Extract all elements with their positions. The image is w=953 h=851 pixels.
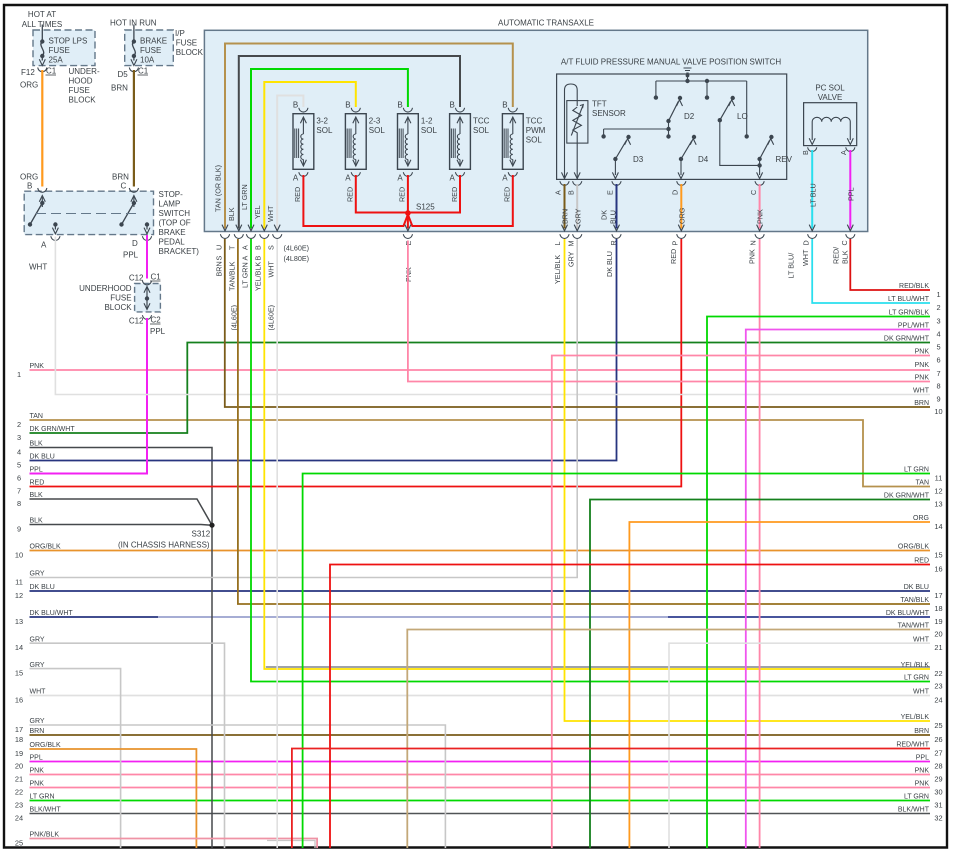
svg-text:LT GRN/BLK: LT GRN/BLK (889, 310, 930, 317)
svg-text:D4: D4 (698, 155, 709, 164)
wire RED row16 (330, 565, 930, 849)
wire RED/WHT row27 (292, 749, 930, 849)
svg-text:5: 5 (936, 343, 940, 352)
wire BLK row22 stripe (266, 666, 930, 668)
wire DK BLU/WHT row13-19 light segment (158, 616, 668, 618)
svg-text:17: 17 (934, 591, 942, 600)
svg-text:PEDAL: PEDAL (159, 238, 186, 247)
svg-text:BLOCK: BLOCK (69, 96, 97, 105)
svg-text:SOL: SOL (473, 126, 490, 135)
svg-text:RED: RED (914, 558, 929, 565)
svg-text:S312: S312 (192, 530, 211, 539)
svg-text:21: 21 (15, 775, 23, 784)
svg-text:28: 28 (934, 762, 942, 771)
svg-text:D: D (802, 240, 811, 245)
automatic transaxle box (204, 30, 867, 231)
ground symbol (684, 68, 692, 73)
svg-text:PNK: PNK (915, 375, 930, 382)
svg-text:YEL: YEL (253, 205, 262, 219)
wire DK BLU switch E (616, 184, 618, 229)
svg-text:BRAKE: BRAKE (140, 37, 167, 46)
svg-text:LO: LO (737, 112, 748, 121)
svg-text:N: N (749, 240, 758, 245)
svg-text:M: M (567, 241, 576, 247)
svg-text:C12: C12 (129, 274, 144, 283)
svg-text:SENSOR: SENSOR (592, 109, 626, 118)
wire PNK row22-30 (30, 787, 931, 789)
wire WHT feed 3-2 (277, 96, 303, 229)
svg-text:14: 14 (15, 643, 23, 652)
wire BLK row4 S312 trunk (30, 448, 213, 849)
svg-text:PPL/WHT: PPL/WHT (898, 323, 930, 330)
svg-text:WHT: WHT (801, 249, 810, 266)
solenoid 2-3 SOL (345, 114, 366, 170)
svg-text:LT GRN: LT GRN (904, 794, 929, 801)
svg-text:D5: D5 (118, 70, 129, 79)
svg-text:LT BLU/: LT BLU/ (787, 253, 796, 279)
svg-text:PPL: PPL (916, 755, 929, 762)
svg-text:BRN: BRN (215, 261, 224, 276)
svg-text:ORG: ORG (20, 81, 38, 90)
svg-text:FUSE: FUSE (69, 86, 90, 95)
svg-text:STOP LPS: STOP LPS (49, 37, 88, 46)
wire RED 2-3 sol A (356, 175, 408, 213)
svg-text:BRN: BRN (914, 400, 929, 407)
svg-text:(4L80E): (4L80E) (284, 254, 310, 263)
solenoid 1-2 SOL (398, 114, 419, 170)
svg-text:6: 6 (17, 474, 21, 483)
svg-text:PNK: PNK (30, 768, 45, 775)
svg-text:TAN (OR BLK): TAN (OR BLK) (214, 165, 223, 212)
svg-text:TAN/BLK: TAN/BLK (228, 261, 237, 291)
svg-text:LT BLU: LT BLU (809, 183, 818, 207)
svg-text:10A: 10A (140, 56, 155, 65)
svg-text:18: 18 (934, 604, 942, 613)
switch D2 (666, 119, 670, 123)
svg-text:RED/BLK: RED/BLK (899, 283, 929, 290)
wire WHT row16-24 (30, 695, 931, 697)
svg-text:BLK: BLK (227, 207, 236, 221)
svg-text:30: 30 (934, 788, 942, 797)
svg-text:1: 1 (17, 370, 21, 379)
svg-text:C1: C1 (151, 273, 162, 282)
svg-text:ORG/BLK: ORG/BLK (30, 544, 61, 551)
wire LT GRN pin A/A row23 (251, 239, 930, 682)
wire PNK pin N (759, 239, 761, 848)
svg-text:A: A (397, 174, 403, 183)
svg-text:SWITCH: SWITCH (159, 209, 191, 218)
svg-text:PNK: PNK (30, 781, 45, 788)
svg-text:YEL/BLK: YEL/BLK (901, 714, 930, 721)
wire LT GRN row11 (303, 474, 930, 849)
svg-text:TCC: TCC (526, 117, 543, 126)
svg-text:D: D (132, 239, 138, 248)
svg-text:7: 7 (936, 369, 940, 378)
svg-text:I/P: I/P (175, 29, 185, 38)
svg-text:GRY: GRY (567, 251, 576, 267)
svg-text:RED: RED (669, 249, 678, 264)
switch bus (656, 80, 747, 82)
svg-text:14: 14 (934, 522, 942, 531)
stop-lamp switch pole C (133, 197, 135, 207)
svg-text:A: A (502, 174, 508, 183)
svg-text:12: 12 (15, 591, 23, 600)
svg-text:TAN: TAN (916, 480, 929, 487)
wire YEL/BLK pin B/B row22 (264, 239, 930, 669)
svg-text:F12: F12 (21, 68, 35, 77)
wire PNK row6 (552, 356, 930, 849)
switch D4 (679, 157, 683, 161)
svg-text:3-2: 3-2 (316, 117, 328, 126)
switch D3 (613, 157, 617, 161)
wire RED TCC PWM sol A (408, 175, 513, 226)
svg-text:BLOCK: BLOCK (104, 303, 132, 312)
wire PPL/WHT row4 (746, 330, 930, 849)
A/T fluid pressure manual valve position switch box (557, 74, 787, 179)
wire PNK row21-29 (30, 774, 931, 776)
svg-text:PPL: PPL (30, 467, 43, 474)
wire GRY row25 stripe (267, 841, 315, 849)
wire WHT pin A row9 (55, 237, 930, 395)
wire BRN fuse feed (133, 70, 135, 187)
wire BLK row8 (30, 499, 213, 525)
wire GRY row17 (30, 725, 446, 848)
svg-text:B: B (502, 101, 507, 110)
svg-text:16: 16 (934, 565, 942, 574)
svg-text:BRN: BRN (914, 728, 929, 735)
svg-text:T: T (228, 245, 237, 250)
wire WHT row21 (669, 643, 930, 848)
svg-text:BRN: BRN (112, 173, 129, 182)
wire GRY row11 pin M (30, 239, 578, 578)
wire DK BLU row5 pin R (30, 239, 617, 461)
svg-text:4: 4 (936, 330, 940, 339)
svg-text:C2: C2 (151, 316, 162, 325)
wire PPL row20-28 (30, 761, 931, 763)
svg-text:15: 15 (934, 551, 942, 560)
svg-text:L: L (553, 242, 562, 246)
svg-text:PNK: PNK (30, 363, 45, 370)
svg-text:2-3: 2-3 (369, 117, 381, 126)
svg-text:BLOCK: BLOCK (176, 48, 204, 57)
svg-text:9: 9 (17, 525, 21, 534)
svg-text:4: 4 (17, 448, 21, 457)
wire DK BLU row12-17 (30, 590, 931, 592)
wire BLK row9 (30, 524, 213, 527)
svg-text:25: 25 (15, 839, 23, 848)
wire GRY switch B (576, 184, 578, 229)
svg-text:BRN: BRN (561, 209, 570, 224)
svg-text:C1: C1 (138, 67, 149, 76)
wire GRY row14 (30, 643, 225, 848)
svg-text:REV: REV (776, 155, 793, 164)
svg-text:RED: RED (346, 187, 355, 202)
wire TAN feed TCC PWM (225, 44, 513, 229)
svg-text:1-2: 1-2 (421, 117, 433, 126)
svg-text:8: 8 (936, 382, 940, 391)
wire BRN row18-26 (30, 734, 931, 736)
svg-text:WHT: WHT (30, 689, 47, 696)
svg-text:PWM: PWM (526, 126, 546, 135)
svg-text:25: 25 (934, 721, 942, 730)
wire BRN switch A (564, 184, 566, 229)
svg-text:D2: D2 (684, 112, 695, 121)
svg-text:A: A (293, 174, 299, 183)
svg-text:B: B (293, 101, 298, 110)
svg-text:PPL: PPL (30, 755, 43, 762)
svg-text:24: 24 (934, 696, 942, 705)
wire LT BLU pc sol B (811, 150, 813, 229)
svg-text:26: 26 (934, 735, 942, 744)
svg-text:B: B (254, 245, 263, 250)
svg-text:GRY: GRY (30, 718, 45, 725)
svg-text:WHT: WHT (266, 205, 275, 222)
svg-text:B: B (254, 256, 263, 261)
svg-text:24: 24 (15, 814, 23, 823)
svg-text:(4L60E): (4L60E) (284, 244, 310, 253)
wire ORG/BLK row10-15 (30, 550, 931, 552)
svg-text:(TOP OF: (TOP OF (159, 219, 191, 228)
svg-text:27: 27 (934, 749, 942, 758)
svg-text:PNK: PNK (915, 781, 930, 788)
svg-text:WHT: WHT (29, 263, 47, 272)
svg-text:DK BLU: DK BLU (904, 584, 929, 591)
svg-text:GRY: GRY (30, 636, 45, 643)
solenoid 3-2 SOL (293, 114, 314, 170)
svg-text:ORG/BLK: ORG/BLK (30, 742, 61, 749)
svg-text:22: 22 (15, 788, 23, 797)
svg-text:S: S (215, 256, 224, 261)
svg-text:32: 32 (934, 814, 942, 823)
wire BRN pin U/S row10 (225, 239, 930, 407)
stop-lamp switch dashed box (24, 191, 153, 234)
svg-text:B: B (397, 101, 402, 110)
svg-text:20: 20 (15, 762, 23, 771)
switch box pin arcs (560, 181, 569, 185)
svg-text:16: 16 (15, 696, 23, 705)
svg-text:PPL: PPL (847, 187, 856, 201)
svg-text:DK: DK (600, 210, 609, 220)
svg-text:SOL: SOL (421, 126, 438, 135)
svg-text:SOL: SOL (369, 126, 386, 135)
svg-text:D: D (671, 190, 680, 195)
svg-text:A: A (41, 241, 47, 250)
svg-text:S: S (267, 245, 276, 250)
svg-text:HOT AT: HOT AT (28, 10, 56, 19)
wire TAN/BLK pin T row18 (238, 239, 930, 604)
svg-text:BLK/WHT: BLK/WHT (898, 807, 930, 814)
wire RED 3-2 sol A (303, 175, 408, 226)
svg-text:BLK/WHT: BLK/WHT (30, 807, 62, 814)
svg-text:PC SOL: PC SOL (815, 84, 845, 93)
svg-text:BRAKE: BRAKE (159, 228, 186, 237)
svg-text:3: 3 (936, 317, 940, 326)
svg-text:BLK: BLK (30, 492, 44, 499)
svg-text:BLK: BLK (841, 250, 850, 264)
svg-text:RED: RED (293, 187, 302, 202)
svg-text:12: 12 (934, 487, 942, 496)
svg-text:17: 17 (15, 725, 23, 734)
svg-text:PPL: PPL (123, 251, 139, 260)
svg-text:23: 23 (934, 682, 942, 691)
svg-text:A: A (839, 150, 848, 155)
svg-text:DK GRN/WHT: DK GRN/WHT (884, 493, 930, 500)
svg-text:6: 6 (936, 356, 940, 365)
svg-text:BLK: BLK (30, 518, 44, 525)
svg-text:15: 15 (15, 669, 23, 678)
svg-text:B: B (345, 101, 350, 110)
svg-text:LT GRN: LT GRN (241, 262, 250, 288)
svg-text:5: 5 (17, 461, 21, 470)
svg-text:DK BLU: DK BLU (30, 454, 55, 461)
svg-text:21: 21 (934, 643, 942, 652)
svg-text:PNK: PNK (748, 249, 757, 264)
svg-text:DK BLU/WHT: DK BLU/WHT (886, 610, 930, 617)
svg-text:BRN: BRN (30, 728, 45, 735)
svg-text:TFT: TFT (592, 100, 607, 109)
wire GRY row15 (30, 669, 121, 848)
svg-text:23: 23 (15, 801, 23, 810)
svg-text:C: C (840, 240, 849, 245)
svg-text:DK GRN/WHT: DK GRN/WHT (30, 426, 76, 433)
svg-text:RED: RED (503, 187, 512, 202)
svg-text:11: 11 (15, 578, 23, 587)
fuse STOP LPS 25A (41, 25, 43, 41)
svg-text:25A: 25A (49, 56, 64, 65)
mechanical link dashed (36, 213, 141, 215)
wire RED row7 pin P (30, 239, 682, 487)
svg-text:RED: RED (398, 187, 407, 202)
svg-text:WHT: WHT (267, 261, 276, 278)
svg-text:B: B (27, 182, 32, 191)
switch REV (757, 157, 761, 161)
svg-text:7: 7 (17, 487, 21, 496)
svg-text:11: 11 (935, 474, 943, 483)
I/P fuse block (BRAKE FUSE) dashed box (125, 30, 174, 66)
svg-text:19: 19 (934, 617, 942, 626)
svg-text:RED/WHT: RED/WHT (896, 742, 929, 749)
TFT sensor (565, 84, 578, 180)
wire ORG/BLK row19 (30, 749, 197, 848)
underhood fuse block (STOP LPS FUSE) dashed box (33, 30, 95, 66)
wire PPL pc sol A (849, 150, 851, 229)
svg-text:C1: C1 (46, 67, 57, 76)
PC SOL coil (812, 117, 850, 140)
wire TAN row2-12 (30, 420, 931, 487)
svg-text:BRACKET): BRACKET) (159, 247, 200, 256)
svg-text:UNDER-: UNDER- (69, 67, 100, 76)
svg-text:FUSE: FUSE (140, 46, 161, 55)
svg-text:20: 20 (934, 630, 942, 639)
svg-text:LAMP: LAMP (159, 200, 181, 209)
wire YEL feed 2-3 (264, 82, 356, 229)
svg-text:FUSE: FUSE (49, 46, 70, 55)
svg-text:8: 8 (17, 499, 21, 508)
wire DK GRN/WHT row3-5 (30, 343, 931, 434)
splice S312 (209, 523, 214, 528)
wire ORG switch D (680, 184, 682, 229)
wire PPL fuse to row6 (30, 318, 148, 474)
svg-text:RED: RED (30, 480, 45, 487)
wire LT GRN feed 1-2 (251, 69, 408, 229)
svg-text:A/T FLUID PRESSURE MANUAL VALV: A/T FLUID PRESSURE MANUAL VALVE POSITION… (561, 58, 781, 67)
svg-text:13: 13 (15, 617, 23, 626)
stop-lamp switch pole B (41, 197, 43, 207)
svg-text:B: B (567, 190, 576, 195)
svg-text:DK BLU/WHT: DK BLU/WHT (30, 610, 74, 617)
svg-text:BRN: BRN (111, 84, 128, 93)
wire PNK row1-7 (30, 369, 931, 371)
wire BLK feed TCC (239, 56, 460, 229)
svg-text:BLK: BLK (30, 441, 44, 448)
svg-text:A: A (345, 174, 351, 183)
svg-text:10: 10 (15, 551, 23, 560)
solenoid TCC SOL (450, 114, 471, 170)
wire LT GRN/BLK row3 (707, 317, 930, 849)
splice S125 (405, 210, 411, 216)
svg-text:PPL: PPL (150, 327, 166, 336)
wire DK GRN/WHT row13 (590, 500, 930, 849)
svg-text:VALVE: VALVE (818, 93, 843, 102)
svg-text:A: A (554, 190, 563, 195)
fuse BRAKE 10A (133, 25, 135, 41)
svg-text:GRY: GRY (574, 208, 583, 224)
svg-text:29: 29 (934, 775, 942, 784)
svg-text:A: A (241, 245, 250, 250)
svg-text:A: A (241, 256, 250, 261)
wire RED TCC sol A (408, 175, 460, 213)
svg-text:YEL/BLK: YEL/BLK (553, 255, 562, 284)
svg-text:LT GRN: LT GRN (240, 184, 249, 210)
svg-text:STOP-: STOP- (159, 190, 184, 199)
svg-text:UNDERHOOD: UNDERHOOD (79, 284, 132, 293)
svg-text:RED: RED (450, 187, 459, 202)
wire RED/BLK pin C row1 (850, 239, 930, 290)
svg-text:GRY: GRY (30, 662, 45, 669)
svg-text:U: U (215, 245, 224, 250)
wire YEL/BLK pin L row25 (565, 239, 931, 721)
svg-text:SOL: SOL (526, 136, 543, 145)
svg-text:19: 19 (15, 749, 23, 758)
solenoid TCC PWM SOL (502, 114, 523, 170)
svg-text:GRY: GRY (30, 571, 45, 578)
PC SOL valve box (804, 103, 857, 146)
svg-text:ORG: ORG (20, 173, 38, 182)
svg-text:WHT: WHT (913, 636, 930, 643)
svg-text:1: 1 (936, 290, 940, 299)
svg-text:PNK: PNK (915, 768, 930, 775)
svg-text:3: 3 (17, 433, 21, 442)
svg-text:A: A (449, 174, 455, 183)
svg-text:31: 31 (934, 801, 942, 810)
svg-text:YEL/BLK: YEL/BLK (254, 262, 263, 291)
svg-text:P: P (671, 241, 680, 246)
wire PPL pin D row6 (146, 235, 148, 279)
svg-text:13: 13 (934, 500, 942, 509)
wire DK BLU/WHT row19 dark segment (668, 616, 930, 618)
svg-text:RED/: RED/ (832, 247, 841, 264)
wire PNK pin E row8 (408, 241, 930, 382)
wire BLK/WHT row24-32 (30, 813, 931, 815)
svg-text:TCC: TCC (473, 117, 490, 126)
svg-text:WHT: WHT (913, 388, 930, 395)
svg-text:DK BLU: DK BLU (30, 584, 55, 591)
svg-text:(4L60E): (4L60E) (267, 305, 276, 331)
svg-text:PNK/BLK: PNK/BLK (30, 832, 60, 839)
svg-text:WHT: WHT (913, 689, 930, 696)
svg-text:YEL/BLK: YEL/BLK (901, 662, 930, 669)
svg-text:PNK: PNK (915, 349, 930, 356)
